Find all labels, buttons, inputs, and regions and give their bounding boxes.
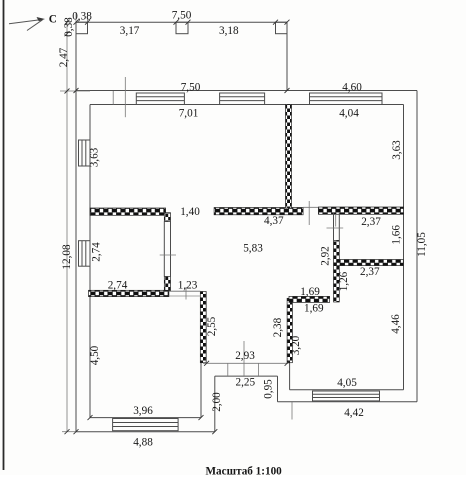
wall V1 bottom segment [164, 277, 170, 292]
extension line hall top [308, 201, 310, 225]
entry step left [227, 363, 229, 376]
svg-text:2,38: 2,38 [272, 317, 284, 337]
svg-text:1,26: 1,26 [338, 271, 350, 291]
svg-text:5,83: 5,83 [243, 243, 263, 255]
svg-text:Масштаб 1:100: Масштаб 1:100 [206, 465, 283, 475]
left wall inner [89, 105, 91, 418]
extension above terrace post left [75, 13, 77, 22]
terrace post 3 [276, 22, 288, 34]
svg-text:3,63: 3,63 [89, 147, 101, 167]
svg-text:2,00: 2,00 [211, 392, 223, 412]
svg-text:4,37: 4,37 [264, 215, 284, 227]
wall H2 [89, 290, 169, 296]
wall V2 hall left [200, 292, 206, 363]
wall V3 hall right [287, 298, 292, 362]
left vertical dimension line [66, 22, 68, 432]
svg-text:4,46: 4,46 [390, 314, 402, 334]
wall H1b central middle [214, 208, 303, 215]
window W2 top wall [220, 93, 265, 105]
svg-text:1,23: 1,23 [178, 280, 198, 292]
bottom-left section right wall outer [214, 376, 216, 432]
svg-text:7,01: 7,01 [179, 107, 199, 119]
svg-text:0,95: 0,95 [263, 379, 275, 399]
extension at top wall left [60, 90, 90, 92]
svg-text:2,37: 2,37 [361, 216, 381, 228]
svg-text:2,25: 2,25 [236, 377, 256, 389]
dimension line 2,93 [203, 362, 289, 364]
svg-text:1,69: 1,69 [304, 303, 324, 315]
top wall outer [76, 90, 417, 92]
bottom-right wall inner [290, 389, 404, 391]
svg-text:12,08: 12,08 [61, 244, 73, 270]
wall H4 [337, 260, 404, 266]
svg-text:7,50: 7,50 [181, 81, 201, 93]
wall H1c central right [318, 207, 403, 214]
svg-text:2,93: 2,93 [235, 350, 255, 362]
bottom-right section left wall outer [277, 376, 279, 402]
svg-text:11,05: 11,05 [416, 232, 428, 257]
svg-text:3,18: 3,18 [219, 25, 239, 37]
window BW2 bottom-right wall [313, 391, 380, 401]
extension below wall V4 [335, 215, 337, 227]
right wall outer [416, 91, 418, 402]
porch top edge [215, 375, 278, 377]
north arrow [9, 20, 43, 31]
extension line near window W1 [124, 77, 126, 117]
lintel line over central door gap [303, 206, 318, 208]
terrace top edge [76, 21, 287, 23]
entry step right [258, 363, 260, 376]
bottom-left section right wall inner [200, 363, 202, 418]
svg-text:2,55: 2,55 [206, 316, 218, 336]
svg-text:4,50: 4,50 [89, 345, 101, 365]
wall H3 niche [289, 296, 330, 302]
wall V1 middle plain part [164, 222, 170, 277]
wall V1 top segment [164, 213, 170, 222]
wall V4 bottom segment [334, 240, 340, 302]
left wall outer [75, 22, 77, 432]
top wall inner [90, 104, 404, 106]
extension below 1,23 door [185, 287, 187, 300]
svg-text:4,60: 4,60 [342, 81, 362, 93]
svg-text:2,37: 2,37 [360, 266, 380, 278]
svg-text:3,20: 3,20 [290, 335, 302, 355]
door opening line H2 gap [169, 290, 200, 292]
exterior walls [76, 22, 417, 432]
wall H1a central left [90, 208, 166, 215]
svg-text:2,92: 2,92 [319, 246, 331, 266]
window W3 top wall right [310, 93, 383, 105]
bottom-left wall inner [90, 417, 201, 419]
bottom-right section left wall inner [289, 363, 291, 390]
jamb line in top wall [112, 91, 114, 105]
dimension ticks [65, 20, 290, 435]
svg-text:2,74: 2,74 [91, 242, 103, 262]
svg-text:1,69: 1,69 [300, 286, 320, 298]
svg-text:3,63: 3,63 [391, 140, 403, 160]
page border left line [3, 0, 5, 470]
extension at bottom-left corner [62, 431, 76, 433]
svg-text:2,47: 2,47 [58, 47, 70, 67]
entry axis line [243, 341, 245, 376]
dimension and extension lines [60, 13, 343, 432]
svg-text:4,88: 4,88 [133, 436, 153, 448]
svg-text:1,66: 1,66 [391, 225, 403, 245]
wall V4 top plain part [334, 213, 340, 241]
window W1 top wall [136, 93, 184, 105]
svg-text:C: C [49, 13, 57, 25]
svg-text:3,17: 3,17 [120, 25, 140, 37]
bottom-right wall outer [278, 401, 418, 403]
svg-text:3,96: 3,96 [133, 405, 153, 417]
extension below bottom-right wall [291, 402, 293, 420]
svg-text:2,74: 2,74 [108, 280, 128, 292]
window LW1 left wall [79, 140, 91, 166]
svg-text:1,40: 1,40 [180, 206, 200, 218]
svg-text:7,50: 7,50 [172, 10, 192, 22]
extension above terrace post right edge [87, 13, 89, 22]
terrace post 1 [76, 22, 88, 34]
svg-text:0,38: 0,38 [72, 11, 92, 23]
svg-text:4,42: 4,42 [344, 407, 364, 419]
right wall inner [403, 105, 405, 390]
window LW2 left wall [79, 241, 91, 267]
door mark wall V1 [160, 254, 176, 256]
interior bearing walls (checkered) [89, 105, 404, 363]
terrace right edge [286, 22, 288, 90]
svg-text:4,05: 4,05 [337, 377, 357, 389]
terrace post 2 [176, 22, 188, 34]
svg-text:0,38: 0,38 [63, 17, 75, 37]
wall V5 between top rooms [286, 105, 292, 209]
window BW1 bottom-left wall [113, 419, 179, 431]
svg-text:4,04: 4,04 [339, 107, 359, 119]
door mark wall V4 [327, 227, 344, 229]
bottom-left wall outer [76, 431, 215, 433]
